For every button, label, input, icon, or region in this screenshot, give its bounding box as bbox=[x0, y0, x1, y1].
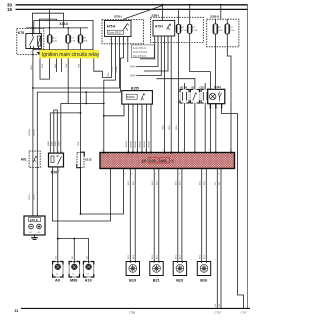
wire diagonal to A75-II bbox=[124, 6, 163, 21]
earth bus bbox=[58, 239, 89, 262]
ECU top junction dots bbox=[103, 151, 105, 153]
earth point A9 bbox=[53, 262, 63, 283]
wire F4b out to S412 bbox=[214, 34, 216, 89]
svg-text:GRA/M: GRA/M bbox=[125, 141, 128, 148]
svg-text:MAR: MAR bbox=[50, 141, 53, 146]
M767 coil bbox=[51, 156, 54, 163]
wire F5 out through L012 down bbox=[80, 43, 82, 214]
fuse input stubs bbox=[31, 28, 33, 34]
svg-text:SMA-L: SMA-L bbox=[130, 65, 138, 68]
wire F6 out to ECU bbox=[178, 33, 180, 152]
injector B23 bbox=[173, 262, 186, 283]
injector wire pairs below ECU bbox=[129, 169, 131, 262]
svg-text:A01: A01 bbox=[21, 158, 27, 162]
svg-text:GRA/M: GRA/M bbox=[32, 129, 35, 136]
svg-text:SNB: SNB bbox=[79, 63, 81, 68]
svg-text:S2B-I: S2B-I bbox=[152, 13, 160, 17]
svg-text:GRA/M: GRA/M bbox=[115, 66, 118, 73]
fuse F4 bbox=[66, 35, 76, 43]
svg-text:GRA: GRA bbox=[30, 65, 33, 70]
wire A75-I pin4 to ECU bbox=[164, 36, 166, 153]
wire H3 riser bbox=[85, 92, 87, 103]
S2B-II internal stubs bbox=[214, 19, 216, 24]
wire A75-I pin5 stub left bbox=[144, 36, 168, 71]
B155 sub label bbox=[126, 94, 137, 99]
injector B21 bbox=[150, 262, 163, 283]
svg-text:GRA/M: GRA/M bbox=[143, 141, 146, 148]
wire drop M98 bbox=[73, 239, 75, 262]
A01 K glyph bbox=[33, 156, 36, 162]
svg-text:GRA/M: GRA/M bbox=[130, 141, 133, 148]
svg-text:01: 01 bbox=[192, 86, 196, 90]
yellow callout: ignition main circuits relay bbox=[36, 50, 100, 59]
svg-text:15A: 15A bbox=[71, 39, 75, 42]
wire H1 A75-II pin3 to A01 bbox=[33, 37, 120, 89]
inline connector L012 dashed bbox=[77, 152, 84, 167]
svg-text:M98: M98 bbox=[70, 279, 77, 283]
svg-text:A75-I: A75-I bbox=[155, 25, 163, 29]
svg-text:GRA/M: GRA/M bbox=[28, 129, 31, 136]
svg-text:ORA: ORA bbox=[175, 125, 178, 130]
wire A75-II pin2 to ECU bbox=[104, 37, 116, 153]
svg-text:Trip 07F071: Trip 07F071 bbox=[133, 55, 147, 58]
A01 inline connector dashed bbox=[29, 151, 40, 167]
fuse F6 bbox=[176, 24, 187, 33]
wires A17B bottoms to ECU bbox=[184, 103, 186, 153]
wire F5b out to ECU bbox=[227, 34, 231, 153]
relay coil bbox=[38, 36, 41, 46]
svg-text:S412: S412 bbox=[214, 85, 221, 89]
svg-text:C05: C05 bbox=[149, 159, 156, 163]
wire bus15 to F6 bbox=[178, 9, 180, 24]
svg-text:15: 15 bbox=[7, 7, 12, 12]
svg-text:C733: C733 bbox=[215, 310, 222, 314]
sensor S412 bbox=[208, 89, 225, 103]
wire bus30 to S2B-II bbox=[220, 5, 222, 19]
M767 contact bbox=[58, 157, 62, 165]
injector B26 bbox=[197, 262, 210, 283]
fusebox S2B-II dashed bbox=[207, 19, 239, 47]
wires to bottom bus 31 bbox=[216, 169, 218, 309]
A75-II body bbox=[105, 21, 132, 37]
wire C01 top stub bbox=[204, 83, 206, 89]
svg-text:B155: B155 bbox=[131, 86, 139, 90]
wire A17B-1 top stub bbox=[184, 83, 186, 89]
relay bottom pin ticks bbox=[30, 46, 32, 49]
svg-text:MAR: MAR bbox=[47, 141, 50, 146]
svg-text:10: 10 bbox=[142, 158, 147, 163]
svg-text:SMB: SMB bbox=[169, 125, 171, 130]
svg-text:A19: A19 bbox=[85, 279, 92, 283]
fuse F5 bbox=[78, 35, 88, 43]
svg-text:GRA/M: GRA/M bbox=[134, 141, 137, 148]
connector A17B dashed bbox=[180, 89, 189, 103]
svg-text:Colo 07F021: Colo 07F021 bbox=[133, 51, 148, 54]
wire relay out through A01 to A70 bbox=[32, 49, 34, 217]
svg-text:Amb 07E41: Amb 07E41 bbox=[133, 47, 147, 50]
wire F4 out to feed line H3 bbox=[68, 43, 104, 104]
svg-text:A9: A9 bbox=[55, 279, 60, 283]
svg-text:GRA/M: GRA/M bbox=[148, 141, 151, 148]
wire A75-II pin1 staircase to fusebox bbox=[94, 37, 112, 78]
B155 pin wires to ECU bbox=[128, 104, 130, 152]
fuse F12 bbox=[47, 35, 57, 43]
S412 circle symbol bbox=[210, 93, 216, 99]
wire motor feed line Hm bbox=[50, 113, 80, 153]
svg-text:MAR: MAR bbox=[54, 141, 57, 146]
fuse F7 bbox=[187, 24, 198, 33]
relay K75 dashed box bbox=[17, 29, 44, 55]
fuse F5b bbox=[225, 24, 235, 34]
wire jog A relay contact feed bbox=[32, 13, 63, 28]
wire M767 pin2 to ECU bbox=[52, 167, 110, 221]
svg-text:15A: 15A bbox=[230, 29, 234, 32]
relay box S7B-I dashed bbox=[102, 20, 144, 44]
L012 wire through bbox=[80, 152, 82, 167]
svg-text:175B: 175B bbox=[129, 311, 135, 315]
wire jog B relay coil feed bbox=[39, 19, 56, 28]
svg-text:15A: 15A bbox=[84, 39, 88, 42]
wire bus15 to fusebox bbox=[49, 9, 51, 28]
svg-text:K: K bbox=[171, 159, 174, 164]
svg-text:B21: B21 bbox=[153, 279, 160, 283]
fusebox X29-II bbox=[34, 21, 93, 50]
A70 ground stub bbox=[34, 235, 36, 237]
Grau IF107 sub label bbox=[108, 30, 124, 34]
motor unit M767 bbox=[49, 153, 64, 167]
svg-text:7.5A: 7.5A bbox=[193, 29, 198, 32]
svg-text:GRA4: GRA4 bbox=[32, 193, 35, 200]
svg-text:K75: K75 bbox=[18, 31, 24, 35]
svg-text:Ignition main circuits relay: Ignition main circuits relay bbox=[42, 52, 100, 58]
svg-text:C747: C747 bbox=[241, 310, 248, 314]
battery unit A70 bbox=[24, 216, 45, 235]
svg-text:B23: B23 bbox=[176, 279, 183, 283]
bus 15 wire bbox=[16, 8, 248, 10]
wire B155 pin1 join bbox=[104, 104, 124, 116]
injector B19 bbox=[126, 262, 139, 283]
svg-text:SNB: SNB bbox=[78, 141, 80, 146]
wire A75-I pin1 stub left bbox=[140, 36, 155, 59]
svg-text:Grau IF107: Grau IF107 bbox=[108, 30, 122, 34]
wire A75-I pin6 to ECU bbox=[170, 36, 172, 153]
svg-text:A01: A01 bbox=[160, 159, 167, 163]
svg-text:X29-II: X29-II bbox=[59, 22, 68, 26]
wire L012 to ECU bbox=[81, 168, 124, 215]
svg-text:ORA: ORA bbox=[107, 72, 110, 77]
earth point M98 bbox=[69, 262, 79, 283]
relay contact bbox=[30, 37, 35, 46]
wire bus30 to F7 bbox=[189, 5, 191, 25]
wire A75-I pin3 stub left bbox=[137, 36, 162, 76]
ECU hatched bar bbox=[100, 153, 235, 169]
wire F7 out to S412 bbox=[190, 33, 211, 89]
svg-text:C01: C01 bbox=[200, 86, 206, 90]
svg-text:10A: 10A bbox=[53, 39, 57, 42]
A70 label bbox=[29, 218, 41, 222]
svg-text:RSA: RSA bbox=[41, 63, 44, 68]
wire U relay to F12 out bbox=[40, 43, 50, 79]
earth point A19 bbox=[83, 262, 93, 283]
wire H2 A75-II pin4 to A01 right bbox=[37, 37, 123, 217]
svg-text:A75-II: A75-II bbox=[107, 24, 116, 28]
A75-I body bbox=[153, 20, 175, 36]
internal feed bus X29-II bbox=[26, 27, 88, 29]
svg-text:SMA-I: SMA-I bbox=[130, 74, 137, 77]
wire bus30 to A75-I bbox=[162, 5, 164, 21]
svg-text:SMA: SMA bbox=[161, 125, 164, 130]
svg-text:L012: L012 bbox=[85, 158, 92, 162]
svg-text:A17B: A17B bbox=[180, 86, 187, 90]
connector 01 dashed bbox=[190, 89, 199, 103]
svg-text:7.5A: 7.5A bbox=[182, 29, 187, 32]
wire M767 pin2-pin3 loop bbox=[54, 110, 58, 153]
svg-text:S7B-I: S7B-I bbox=[114, 14, 122, 18]
svg-text:A70 E: A70 E bbox=[30, 218, 38, 222]
wire A75-I pin2 stub left bbox=[137, 36, 158, 66]
svg-text:B26: B26 bbox=[200, 279, 207, 283]
bus 31 wire bbox=[21, 307, 250, 309]
svg-text:GRA/M: GRA/M bbox=[139, 141, 142, 148]
wire A75-II pin5 stub bbox=[127, 37, 129, 63]
node bus15/X29 bbox=[49, 8, 51, 10]
svg-text:B19: B19 bbox=[129, 279, 136, 283]
ECU node B155 bbox=[122, 91, 153, 105]
wire M767 pin4 to earth bus bbox=[57, 167, 59, 262]
S412 pin3 jog right bbox=[222, 104, 244, 309]
wire right border drop bbox=[247, 5, 249, 309]
fuse F4b bbox=[213, 24, 223, 34]
svg-text:MAR: MAR bbox=[57, 141, 60, 146]
text box wire codes bbox=[131, 45, 154, 58]
svg-text:BAR: BAR bbox=[54, 63, 57, 68]
svg-text:31: 31 bbox=[15, 309, 19, 313]
svg-text:SNA: SNA bbox=[65, 63, 68, 68]
switch glyph A75-I bbox=[167, 24, 171, 30]
S412 pins to ECU bbox=[209, 104, 211, 153]
fusebox spare stubs bbox=[56, 59, 58, 73]
wire M767 pin4 from H3 bbox=[61, 103, 68, 105]
S412 fork symbol bbox=[218, 93, 220, 102]
bus 30 wire bbox=[16, 4, 248, 6]
svg-text:GRA1: GRA1 bbox=[28, 193, 31, 200]
svg-text:10A: 10A bbox=[219, 29, 223, 32]
B155 K glyph bbox=[141, 93, 144, 100]
svg-text:S2B-II: S2B-II bbox=[210, 15, 219, 19]
node bus30 main bbox=[161, 4, 163, 6]
svg-text:GRA/M: GRA/M bbox=[111, 66, 114, 73]
relay K75 body bbox=[26, 34, 42, 49]
A70 terminal - bbox=[29, 224, 34, 229]
connector C01 dashed bbox=[201, 89, 209, 103]
switch glyph A75-II bbox=[124, 24, 128, 30]
svg-text:B155A: B155A bbox=[127, 95, 135, 99]
relay box S2B-I dashed bbox=[151, 17, 204, 42]
A70 terminal + bbox=[37, 224, 42, 229]
A01 wires through bbox=[32, 151, 34, 167]
wire H_b to A17B-2 bbox=[156, 79, 195, 90]
